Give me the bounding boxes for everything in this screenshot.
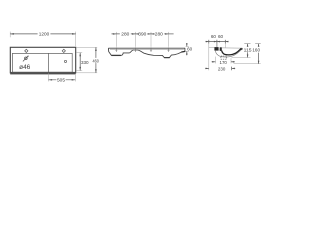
section profile	[214, 47, 242, 59]
divider	[48, 53, 50, 72]
back rim thin line	[222, 47, 242, 49]
svg-text:1200: 1200	[39, 31, 50, 37]
dim 160	[234, 44, 261, 64]
faucet hole dash above deck	[216, 44, 218, 47]
extension lines	[116, 32, 168, 47]
deck-to-wall faint line	[209, 46, 215, 48]
back ledge block	[214, 47, 218, 51]
extension verticals	[209, 43, 226, 71]
dim 330	[76, 53, 82, 71]
faucet diamond right	[62, 49, 65, 52]
svg-text:280: 280	[121, 31, 129, 37]
dim 505	[49, 73, 76, 81]
right bowl circle	[64, 60, 66, 62]
svg-text:460: 460	[93, 58, 100, 64]
svg-text:505: 505	[57, 77, 65, 83]
svg-text:60: 60	[187, 46, 193, 51]
dim 1200	[10, 32, 76, 47]
svg-text:390: 390	[138, 31, 146, 37]
dim row	[112, 33, 169, 35]
svg-text:ø46: ø46	[19, 64, 31, 71]
second deck block (faucet hole slot between)	[220, 47, 222, 51]
svg-text:170: 170	[220, 60, 228, 66]
svg-text:60: 60	[218, 34, 224, 39]
rim tip wedge	[240, 48, 243, 50]
svg-text:280: 280	[155, 31, 163, 37]
dim 115	[232, 44, 251, 58]
front profile	[108, 48, 185, 58]
svg-text:160: 160	[252, 48, 260, 54]
dim 170	[215, 57, 231, 64]
dim 460	[76, 47, 97, 72]
faucet diamond left	[25, 49, 28, 52]
inner rect	[12, 53, 72, 72]
svg-text:115: 115	[244, 47, 252, 53]
svg-text:60: 60	[211, 34, 217, 39]
dim 230	[205, 67, 235, 71]
outer rect	[10, 47, 75, 73]
svg-text:230: 230	[218, 66, 226, 72]
bottom shadow line	[10, 72, 76, 75]
outer shell	[215, 49, 242, 57]
svg-text:330: 330	[81, 60, 89, 66]
dim 60 right of front view	[186, 46, 189, 51]
drain circle left bowl	[25, 57, 28, 60]
drain dashed box	[221, 56, 227, 59]
deck hole crosses	[115, 47, 170, 52]
bowl cut thick	[222, 48, 242, 55]
